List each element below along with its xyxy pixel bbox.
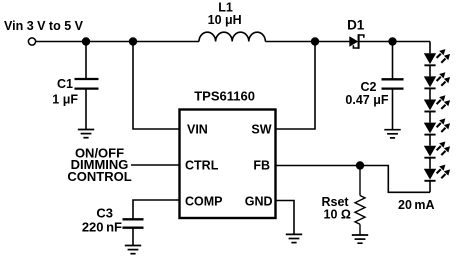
op-amp U1 TPS61160 box — [180, 110, 276, 219]
capacitor C1 — [75, 43, 99, 130]
wire — [429, 112, 431, 123]
svg-text:FB: FB — [253, 159, 270, 173]
LED D2 — [424, 49, 450, 65]
LED D5 — [424, 118, 450, 134]
LED D6 — [424, 142, 450, 158]
junction C1 node — [82, 37, 90, 45]
ground (Rset) — [352, 235, 368, 243]
svg-text:20 mA: 20 mA — [398, 198, 435, 212]
svg-text:220 nF: 220 nF — [82, 219, 122, 234]
wire GND pin to ground — [276, 201, 295, 235]
svg-text:COMP: COMP — [185, 195, 223, 209]
svg-text:10 Ω: 10 Ω — [324, 207, 351, 221]
wire — [429, 88, 431, 99]
wire top rail from Vin terminal to inductor — [36, 41, 199, 43]
wire — [429, 135, 431, 146]
diode D1 (Schottky) — [349, 34, 364, 49]
svg-text:C3: C3 — [96, 206, 113, 221]
capacitor C2 — [382, 43, 404, 130]
svg-text:0.47 μF: 0.47 μF — [345, 93, 388, 107]
svg-text:Vin 3 V to 5 V: Vin 3 V to 5 V — [4, 19, 84, 33]
wire VIN branch — [133, 42, 180, 130]
svg-text:1 μF: 1 μF — [52, 93, 78, 107]
terminal Vin — [28, 38, 35, 45]
ground (C3) — [125, 246, 141, 254]
inductor L1 — [199, 32, 265, 41]
junction SW node — [311, 37, 319, 45]
svg-text:SW: SW — [251, 123, 271, 137]
junction FB node — [356, 161, 364, 169]
wire — [429, 65, 431, 76]
wire inductor to diode — [265, 41, 350, 43]
junction VIN node — [129, 37, 137, 45]
ground (GND pin) — [286, 234, 302, 242]
ground (C1) — [78, 130, 94, 138]
svg-text:GND: GND — [245, 195, 273, 209]
wire LED chain bottom — [429, 181, 431, 193]
capacitor C3 — [123, 219, 144, 245]
LED D3 — [424, 72, 450, 88]
wire CTRL — [131, 164, 180, 166]
svg-text:TPS61160: TPS61160 — [194, 89, 255, 104]
svg-text:CTRL: CTRL — [185, 159, 219, 173]
junction C2 node — [388, 37, 396, 45]
LED D7 — [424, 165, 450, 181]
svg-text:VIN: VIN — [187, 123, 208, 137]
LED D4 — [424, 95, 450, 111]
svg-text:10 μH: 10 μH — [208, 13, 242, 27]
wire diode to LED chain — [360, 41, 431, 43]
resistor Rset — [355, 166, 365, 235]
label ON/OFF DIMMING CONTROL — [67, 146, 131, 185]
wire COMP to C3 — [133, 200, 180, 219]
ground (C2) — [384, 130, 400, 138]
wire FB to LED return — [276, 166, 431, 193]
svg-text:C1: C1 — [57, 77, 73, 91]
svg-text:D1: D1 — [347, 17, 365, 32]
svg-text:CONTROL: CONTROL — [67, 169, 131, 184]
wire SW branch — [276, 43, 316, 129]
wire LED chain top — [429, 42, 431, 54]
svg-text:C2: C2 — [361, 80, 377, 94]
wire — [429, 158, 431, 169]
